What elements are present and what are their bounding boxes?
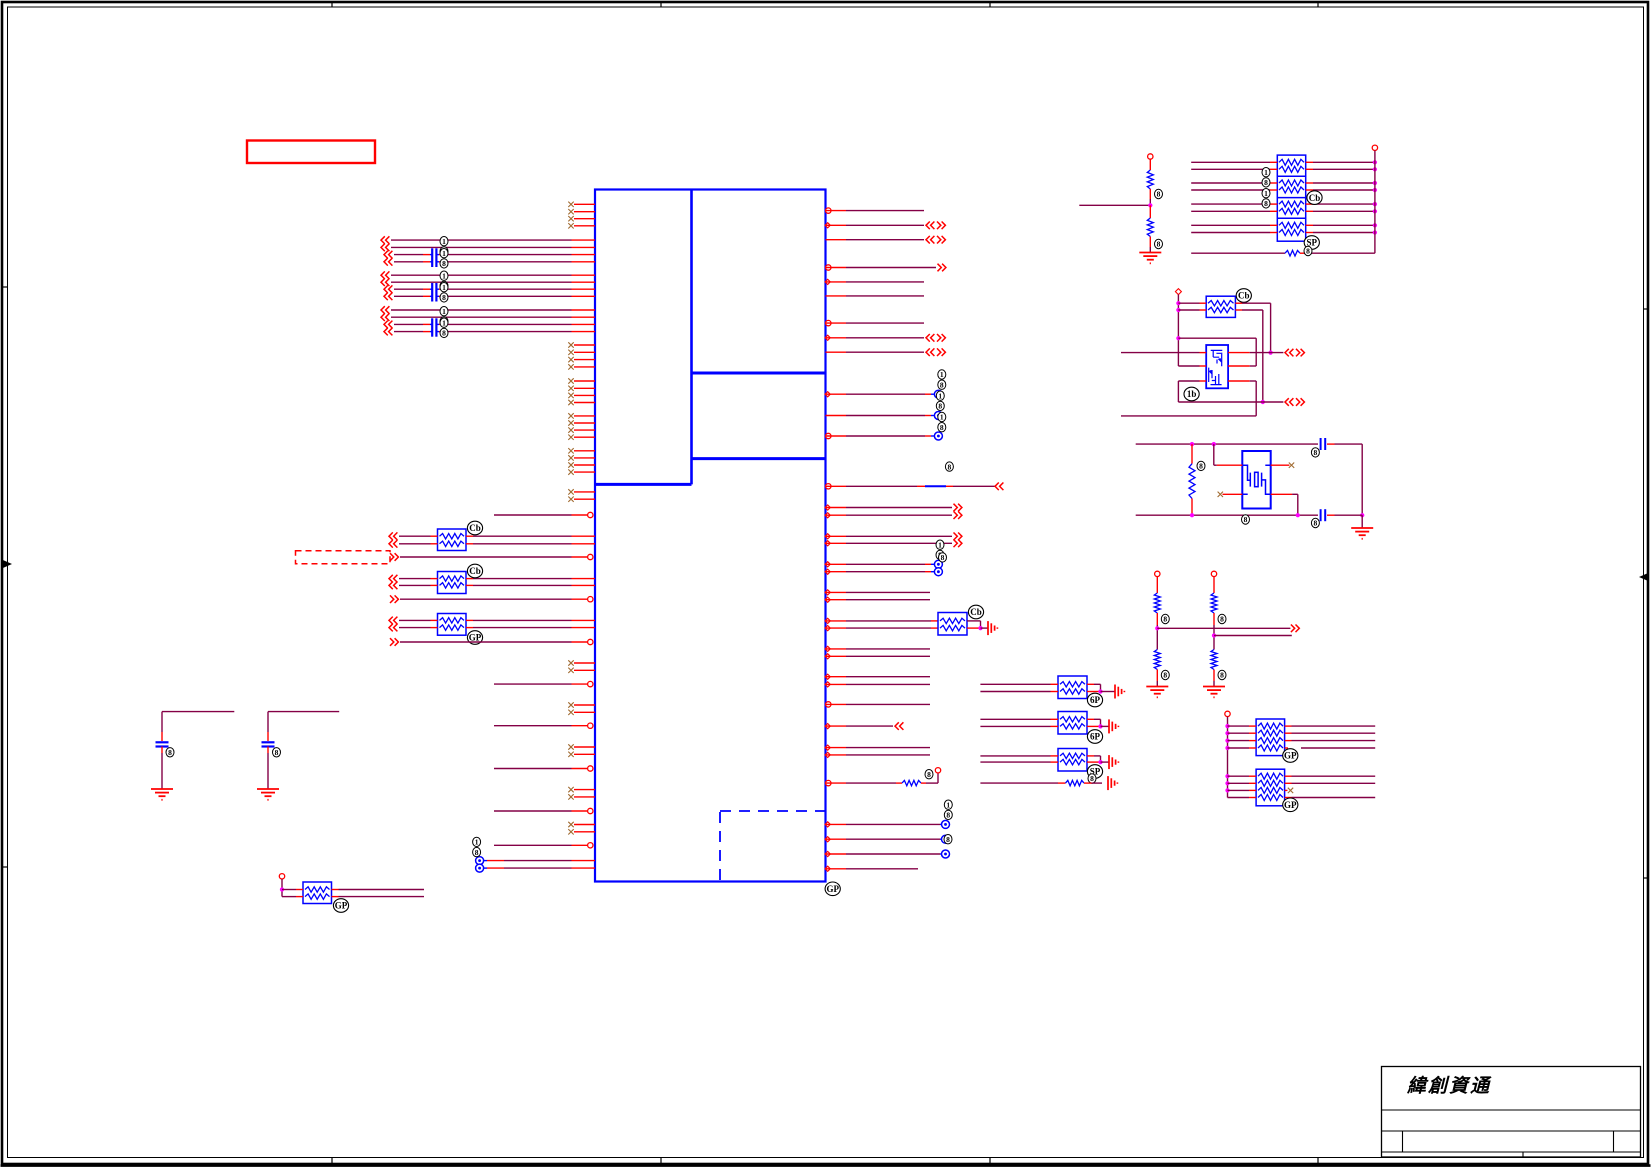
left group wire with off-page chevron xyxy=(384,328,388,336)
sideways ground symbol xyxy=(1108,755,1110,769)
capacitor reference designators xyxy=(440,237,448,246)
RP11 short row output xyxy=(1285,747,1288,749)
single resistor R8 to sideways ground xyxy=(980,782,1058,784)
U1 left no-connect pin stub xyxy=(574,824,595,826)
pack output loop to ground xyxy=(1087,718,1094,720)
left group wire with off-page chevron xyxy=(381,306,385,314)
U1 left no-connect pin stub xyxy=(574,450,595,452)
series capacitor pair plates xyxy=(431,318,433,336)
RP9 output bus xyxy=(1372,145,1377,150)
divider input wire xyxy=(1079,204,1150,206)
op IC U1 main outline xyxy=(595,190,826,882)
svg-text:6P: 6P xyxy=(1090,695,1101,705)
right border centre arrow xyxy=(1640,574,1648,581)
Y1 upper pin wires xyxy=(1213,444,1215,465)
left single wire with chevron to U1 xyxy=(390,638,394,646)
svg-text:8: 8 xyxy=(940,423,944,432)
U2 pin wires xyxy=(1121,352,1200,354)
ground symbol xyxy=(151,788,173,790)
U1 right pin wire xyxy=(825,682,830,687)
svg-text:8: 8 xyxy=(1306,247,1310,256)
sheet outer border bottom emphasis xyxy=(1,1164,1651,1167)
svg-text:8: 8 xyxy=(442,329,446,338)
sideways ground symbol xyxy=(1108,719,1110,733)
U1 right pin wire xyxy=(826,351,847,353)
svg-text:8: 8 xyxy=(168,748,172,757)
U1 left no-connect pin stub xyxy=(574,436,595,438)
RP9 element row wires xyxy=(1191,232,1270,234)
svg-text:8: 8 xyxy=(1314,519,1318,528)
U1 left no-connect pin stub xyxy=(574,491,595,493)
resistor pack reference label xyxy=(467,521,482,535)
extra tiny designator under SP pack xyxy=(1088,774,1096,783)
left dangling net wire to U1 circle pin xyxy=(494,844,572,846)
resistor element and wires xyxy=(389,540,393,548)
left border centre arrow xyxy=(3,561,11,568)
svg-text:1: 1 xyxy=(475,838,479,847)
svg-text:Cb: Cb xyxy=(1309,193,1321,203)
svg-text:8: 8 xyxy=(1157,240,1161,249)
left group wire with off-page chevron xyxy=(381,278,385,286)
U1 right pin wire xyxy=(825,590,830,595)
svg-text:1: 1 xyxy=(938,391,942,400)
svg-text:8: 8 xyxy=(1314,448,1318,457)
U1 left no-connect pin stub xyxy=(574,422,595,424)
U1 left no-connect pin stub xyxy=(574,359,595,361)
U1 left no-connect pin stub xyxy=(574,471,595,473)
RP12 reference label xyxy=(1283,798,1298,812)
RP9 series resistor bottom row xyxy=(1191,252,1285,254)
U1 right pin wire xyxy=(825,513,830,518)
resistor pack box xyxy=(1058,712,1087,735)
right border zone ticks xyxy=(1644,308,1650,310)
decoupling capacitor to ground xyxy=(162,711,234,713)
right pins small designators xyxy=(938,370,946,379)
svg-text:1: 1 xyxy=(442,271,446,280)
RP13 reference label xyxy=(333,899,348,913)
U1 left no-connect pin stub xyxy=(574,387,595,389)
pack output loop to ground xyxy=(1087,755,1094,757)
U1 left no-connect pin stub xyxy=(574,796,595,798)
svg-text:8: 8 xyxy=(1264,178,1268,187)
RP9 element row wires xyxy=(1191,224,1270,226)
U1 left no-connect pin stub xyxy=(574,402,595,404)
svg-text:Cb: Cb xyxy=(1238,291,1250,301)
RP9 element row wires xyxy=(1191,203,1270,205)
svg-text:8: 8 xyxy=(1163,671,1167,680)
svg-text:8: 8 xyxy=(946,811,950,820)
left single wire with chevron to U1 xyxy=(390,553,394,561)
U1 right pin wire xyxy=(826,433,831,438)
resistor pack box xyxy=(1058,749,1087,772)
Y1 lower pin wires xyxy=(1218,492,1223,497)
resistor pack box xyxy=(1058,676,1087,699)
RP11 reference label xyxy=(1283,749,1298,763)
pack reference label xyxy=(1087,730,1102,744)
svg-text:6P: 6P xyxy=(1090,732,1101,742)
svg-text:1: 1 xyxy=(940,370,944,379)
ground symbol xyxy=(257,788,279,790)
resistor pack RP10 xyxy=(1206,296,1235,317)
U1 right pin wire xyxy=(825,597,830,602)
left dangling net wire to U1 circle pin xyxy=(494,683,572,685)
U1 left no-connect pin stub xyxy=(574,831,595,833)
resistor pack reference label xyxy=(467,631,482,645)
divider tap wire xyxy=(1157,627,1290,629)
RP10 reference label xyxy=(1236,289,1251,303)
svg-text:1: 1 xyxy=(442,307,446,316)
U1 right pin wire xyxy=(825,279,830,284)
U2 internal transistor details xyxy=(1211,350,1223,366)
svg-text:GP: GP xyxy=(1284,800,1297,810)
pack input wire xyxy=(980,761,1050,763)
RP9 element row wires xyxy=(1191,182,1270,184)
svg-text:1: 1 xyxy=(938,540,942,549)
RP9 designators xyxy=(1262,168,1270,177)
svg-text:8: 8 xyxy=(1157,190,1161,199)
svg-text:1: 1 xyxy=(946,800,950,809)
pack reference label xyxy=(1087,693,1102,707)
svg-text:8: 8 xyxy=(1199,462,1203,471)
left wire with blue net bubble xyxy=(476,857,484,865)
supply circle for RP11 RP12 xyxy=(1225,711,1230,716)
U1 right pin wire xyxy=(825,851,830,856)
RP9 element row wires xyxy=(1191,161,1270,163)
red annotation rectangle xyxy=(247,141,375,164)
U1 left no-connect pin stub xyxy=(574,711,595,713)
pack reference label xyxy=(1087,765,1102,779)
U1 left no-connect pin stub xyxy=(574,415,595,417)
left group wire with off-page chevron xyxy=(381,244,385,252)
series resistor designator xyxy=(925,770,933,779)
svg-text:緯創資通: 緯創資通 xyxy=(1406,1075,1492,1097)
svg-text:1: 1 xyxy=(442,318,446,327)
svg-text:GP: GP xyxy=(335,901,348,911)
crystal circuit bottom rail xyxy=(1136,514,1318,516)
svg-text:Cb: Cb xyxy=(970,607,982,617)
U1 right pin wire xyxy=(825,569,830,574)
left wire with blue net bubble xyxy=(476,864,484,872)
decoupling capacitor to ground xyxy=(268,711,339,713)
U1 right pin wire xyxy=(826,208,831,213)
resistor element and wires xyxy=(389,575,393,583)
U2 bottom long wire xyxy=(1121,415,1256,417)
svg-text:1: 1 xyxy=(940,413,944,422)
U1 right pin wire xyxy=(826,415,847,417)
resistor pack RP4 on U1 right with ground return xyxy=(825,618,830,623)
capacitor C11 inline bottom xyxy=(1320,509,1322,521)
U1 right pin wire xyxy=(825,866,830,871)
svg-text:GP: GP xyxy=(469,633,482,643)
resistor element and wires xyxy=(389,582,393,590)
pack input wire xyxy=(980,718,1050,720)
U2 designator label xyxy=(1184,387,1199,401)
U1 dashed internal region vertical xyxy=(719,812,721,882)
crystal circuit top rail xyxy=(1136,443,1318,445)
resistor element and wires xyxy=(389,532,393,540)
U1 internal horizontal step line xyxy=(595,483,692,486)
U1 right long wire with inline blue net segment xyxy=(826,484,831,489)
sideways ground symbol xyxy=(987,621,989,635)
resistor element and wires xyxy=(389,617,393,625)
svg-text:GP: GP xyxy=(826,884,839,894)
U1 dashed internal region horizontal xyxy=(720,810,826,812)
U1 left no-connect pin stub xyxy=(574,498,595,500)
top border zone ticks xyxy=(331,2,333,7)
RTC vertical feed wire xyxy=(1177,294,1179,366)
U1 left no-connect pin stub xyxy=(574,366,595,368)
crystal Y1 box xyxy=(1242,451,1270,509)
bottom border zone ticks xyxy=(331,1158,333,1165)
pack input wire xyxy=(980,691,1050,693)
svg-text:8: 8 xyxy=(946,835,950,844)
left group wire with off-page chevron xyxy=(384,258,388,266)
pack output loop to ground xyxy=(1087,683,1094,685)
RP12 no-connect row xyxy=(1285,789,1288,791)
svg-text:Cb: Cb xyxy=(469,523,481,533)
voltage divider xyxy=(1211,571,1216,576)
dashed highlight box (net annotation) xyxy=(296,551,391,564)
left dangling net wire to U1 circle pin xyxy=(494,810,572,812)
resistor pack RP9 (8 elements) top-right xyxy=(1277,155,1305,241)
svg-text:8: 8 xyxy=(1264,199,1268,208)
resistor element and wires xyxy=(389,624,393,632)
U1 right pin wire xyxy=(825,654,830,659)
svg-text:1: 1 xyxy=(1264,168,1268,177)
svg-text:1: 1 xyxy=(442,283,446,292)
svg-text:8: 8 xyxy=(1220,615,1224,624)
resistor pack box xyxy=(438,529,467,551)
U1 right pin wire xyxy=(826,239,847,241)
title block frame xyxy=(1382,1067,1641,1158)
RP9 element row wires xyxy=(1191,210,1270,212)
svg-text:8: 8 xyxy=(941,553,945,562)
resistor pack RP13 bottom-left xyxy=(279,874,284,879)
resistor pack RP11 (4 elements) xyxy=(1256,719,1285,756)
U1 right pin wire xyxy=(825,724,830,729)
U1 right pin wire xyxy=(825,837,830,842)
U1 right pin wire xyxy=(825,745,830,750)
svg-text:GP: GP xyxy=(1284,751,1297,761)
U1 internal horizontal divider upper xyxy=(692,372,826,375)
resistor pack reference label xyxy=(467,564,482,578)
U1 left no-connect pin stub xyxy=(574,218,595,220)
U1 right pin wire xyxy=(825,752,830,757)
U1 left no-connect pin stub xyxy=(574,669,595,671)
ground symbol xyxy=(1139,252,1161,254)
U1 internal horizontal divider lower xyxy=(692,457,826,460)
resistor pack box xyxy=(438,614,467,636)
crystal circuit designators xyxy=(1242,515,1250,524)
left border zone ticks xyxy=(2,286,8,288)
pack input wire xyxy=(980,755,1050,757)
U1 right pin wire xyxy=(825,505,830,510)
left dangling net wire to U1 circle pin xyxy=(494,514,572,516)
RP9 element row wires xyxy=(1191,189,1270,191)
capacitor reference designators xyxy=(440,307,448,316)
U1 left no-connect pin stub xyxy=(574,753,595,755)
svg-text:8: 8 xyxy=(442,293,446,302)
bias resistor R12 xyxy=(1191,444,1193,464)
U1 right pin wire xyxy=(825,392,830,397)
U1 left no-connect pin stub xyxy=(574,429,595,431)
U1 left no-connect pin stub xyxy=(574,662,595,664)
svg-text:1: 1 xyxy=(442,249,446,258)
svg-text:8: 8 xyxy=(1163,615,1167,624)
left dangling net wire to U1 circle pin xyxy=(494,768,572,770)
series capacitor pair plates xyxy=(431,248,433,267)
U2 lower output row xyxy=(1178,401,1262,403)
U1 right pin wire xyxy=(825,335,830,340)
U1 right pin wire xyxy=(825,223,830,228)
U1 left no-connect pin stub xyxy=(574,351,595,353)
left group wire with off-page chevron xyxy=(384,293,388,301)
U1 right pin wire xyxy=(825,541,830,546)
series capacitor pair plates xyxy=(431,283,433,302)
U1 left no-connect pin stub xyxy=(574,344,595,346)
left group wire with off-page chevron xyxy=(384,251,388,259)
svg-text:8: 8 xyxy=(442,259,446,268)
resistor pack RP12 (4 elements) xyxy=(1256,769,1285,806)
ground symbol xyxy=(1203,686,1225,688)
right rail down xyxy=(1361,444,1363,515)
voltage divider xyxy=(1155,571,1160,576)
U1 left no-connect pin stub xyxy=(574,464,595,466)
ground symbol xyxy=(1146,686,1168,688)
U1 left no-connect pin stub xyxy=(574,380,595,382)
svg-text:8: 8 xyxy=(275,748,279,757)
RP10 output wires to chevrons xyxy=(1242,302,1271,304)
U1 right pin wire xyxy=(826,702,831,707)
voltage divider R10 R11 top-right xyxy=(1148,154,1153,159)
U1 corner reference label GP xyxy=(825,882,840,896)
capacitor reference designators xyxy=(440,271,448,280)
svg-text:1: 1 xyxy=(442,237,446,246)
sideways ground symbol xyxy=(1114,685,1116,699)
U1 left no-connect pin stub xyxy=(574,211,595,213)
capacitor C10 inline top xyxy=(1320,438,1322,450)
U1 left no-connect pin stub xyxy=(574,746,595,748)
divider tap wire xyxy=(1214,635,1292,637)
left group wire with off-page chevron xyxy=(384,285,388,293)
U1 right pin wire xyxy=(826,320,831,325)
U1 right pin wire xyxy=(825,822,830,827)
U1 right pin wire xyxy=(826,265,831,270)
loop back wire xyxy=(1178,337,1256,339)
U1 left no-connect pin stub xyxy=(574,457,595,459)
left dangling net wire to U1 circle pin xyxy=(494,725,572,727)
ground symbol bottom right of crystal xyxy=(1361,515,1363,528)
svg-text:8: 8 xyxy=(1090,774,1094,783)
U1 right pin wire xyxy=(826,295,847,297)
left group wire with off-page chevron xyxy=(384,321,388,329)
svg-text:8: 8 xyxy=(927,770,931,779)
U1 right pin wire xyxy=(825,562,830,567)
left group wire with off-page chevron xyxy=(381,313,385,321)
U1 right pin wire xyxy=(825,674,830,679)
svg-text:8: 8 xyxy=(475,848,479,857)
left bubble wires designator xyxy=(473,837,481,846)
RTC circuit supply diamond xyxy=(1175,289,1181,295)
U1 internal vertical divider xyxy=(690,190,693,485)
svg-text:8: 8 xyxy=(948,462,952,471)
svg-text:Cb: Cb xyxy=(469,566,481,576)
RP4 reference label xyxy=(968,605,983,619)
U1 right wire with series resistor to supply circle xyxy=(826,780,831,785)
U1 left no-connect pin stub xyxy=(574,203,595,205)
resistor pack box xyxy=(438,572,467,594)
pack input wire xyxy=(980,725,1050,727)
svg-text:8: 8 xyxy=(1220,671,1224,680)
left group wire with off-page chevron xyxy=(381,236,385,244)
svg-text:1b: 1b xyxy=(1187,389,1197,399)
U1 left no-connect pin stub xyxy=(574,704,595,706)
U1 left no-connect pin stub xyxy=(574,225,595,227)
left single wire with chevron to U1 xyxy=(390,595,394,603)
svg-text:1: 1 xyxy=(1264,189,1268,198)
svg-text:8: 8 xyxy=(938,402,942,411)
pack input wire xyxy=(980,683,1050,685)
RP9 element row wires xyxy=(1191,168,1270,170)
U1 right pin wire xyxy=(825,534,830,539)
svg-text:8: 8 xyxy=(940,380,944,389)
left group wire with off-page chevron xyxy=(381,271,385,279)
Y1 crystal symbol xyxy=(1242,465,1250,486)
switch IC U2 box xyxy=(1206,345,1228,388)
U1 right pin wire xyxy=(825,646,830,651)
U1 left no-connect pin stub xyxy=(574,789,595,791)
U1 left no-connect pin stub xyxy=(574,394,595,396)
svg-text:8: 8 xyxy=(1244,515,1248,524)
